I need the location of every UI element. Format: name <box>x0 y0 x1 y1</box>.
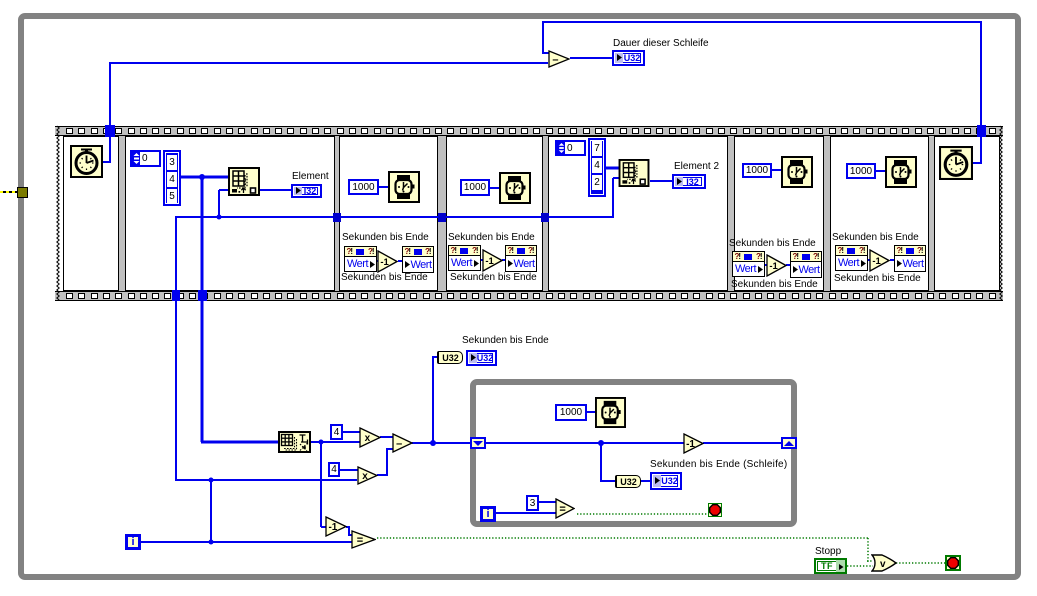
svg-text:-1: -1 <box>686 439 695 450</box>
svg-text:-1: -1 <box>769 261 778 272</box>
svg-text:–: – <box>396 438 402 450</box>
svg-text:x: x <box>362 471 368 482</box>
svg-text:v: v <box>880 559 886 570</box>
svg-text:-1: -1 <box>485 256 494 267</box>
svg-text:x: x <box>365 433 371 444</box>
svg-text:-1: -1 <box>872 256 881 267</box>
svg-text:-1: -1 <box>328 522 337 533</box>
svg-text:=: = <box>357 534 363 546</box>
svg-text:=: = <box>559 503 565 515</box>
svg-text:-1: -1 <box>380 257 389 268</box>
svg-text:–: – <box>552 54 558 66</box>
